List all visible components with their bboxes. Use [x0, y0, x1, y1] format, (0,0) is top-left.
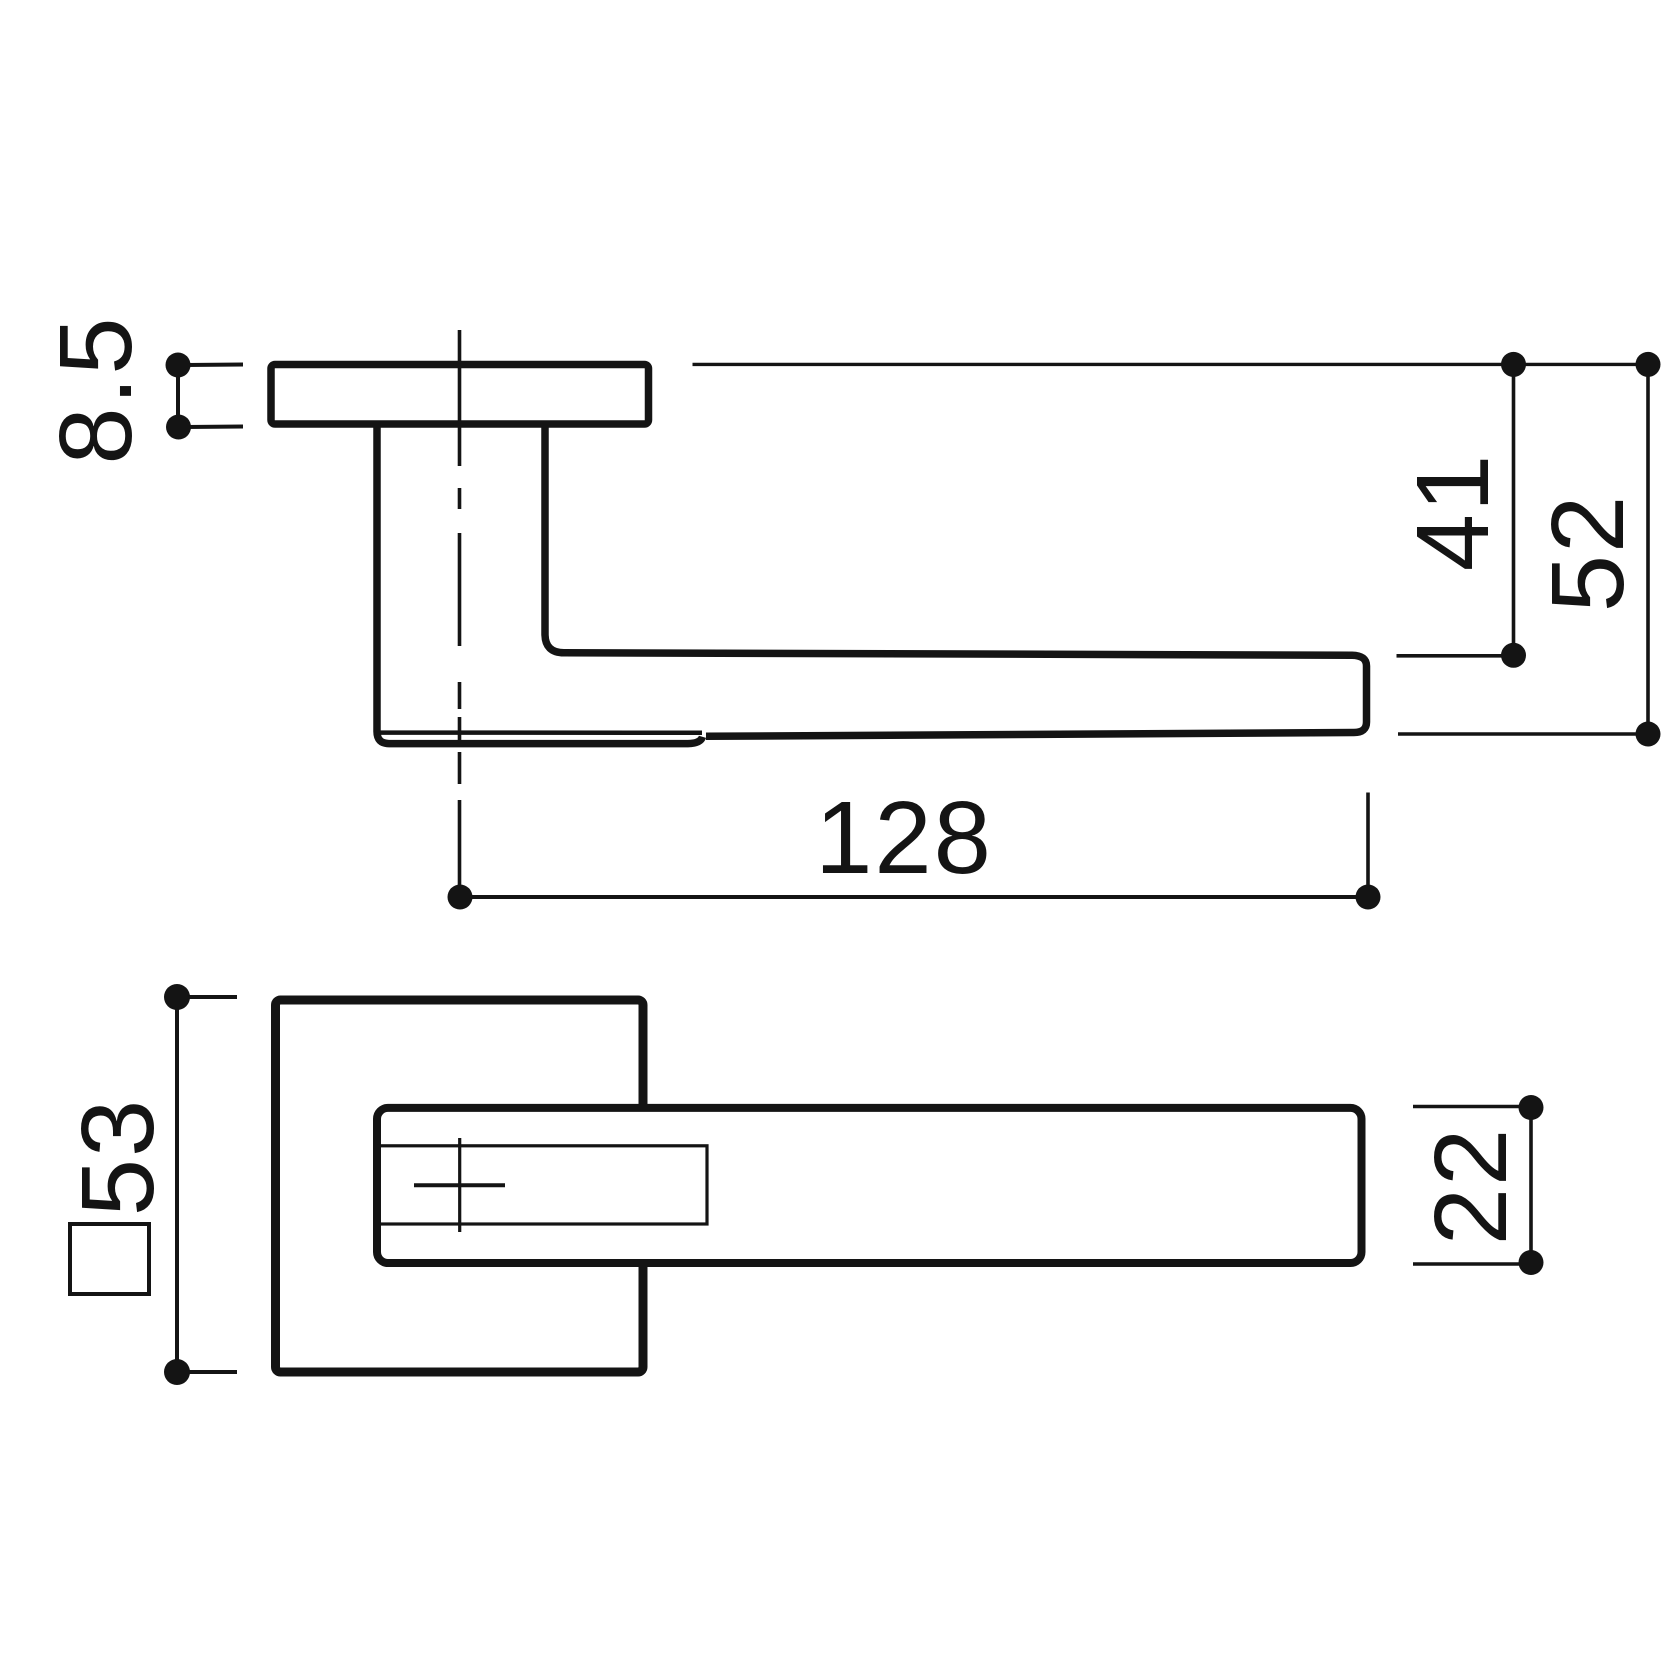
center line (side view, vertical dash-dot) [458, 330, 462, 890]
spindle area rectangle (front view) [379, 1146, 707, 1224]
rose plate (side view) [271, 365, 649, 425]
dimension 8.5: bottom stub line [186, 425, 243, 430]
dimension 128: right dot [1356, 885, 1381, 910]
dimension 41: top dot [1501, 352, 1526, 377]
dimension 53: bottom stub line [186, 1370, 237, 1374]
dimension 8.5: dimension line [176, 365, 180, 427]
dimension 22: dimension line [1529, 1108, 1533, 1263]
svg-text:22: 22 [1413, 1127, 1528, 1246]
lever neck right edge and arm outline (side view) [545, 427, 1367, 736]
dimension 52: bottom dot [1636, 722, 1661, 747]
top extension line from rose plate to right dimensions [693, 363, 1649, 366]
dimension 53: top dot [164, 984, 190, 1010]
grip bottom inner line (side view) [380, 730, 702, 735]
dimension 8.5: bottom dot [166, 415, 191, 440]
svg-text:128: 128 [815, 780, 993, 895]
lever grip rear bottom contour (side view) [377, 427, 703, 744]
svg-text:8.5: 8.5 [38, 315, 153, 464]
dimension 52: dimension line [1646, 364, 1650, 734]
dimension 53: top stub line [186, 995, 237, 999]
svg-text:52: 52 [1530, 494, 1645, 613]
svg-text:53: 53 [60, 1098, 175, 1217]
dimension 128: left dot [448, 885, 473, 910]
square rose plate (front view) [276, 1000, 644, 1372]
dimension 41: extension line from lever top edge [1397, 654, 1514, 658]
dimension 52: top dot [1636, 352, 1661, 377]
dimension 8.5: top dot [166, 353, 191, 378]
dimension 8.5: top stub line [186, 363, 243, 368]
dimension 22: bottom dot [1519, 1250, 1544, 1275]
dimension 22: top dot [1519, 1095, 1544, 1120]
dimension 52: extension line from lever bottom edge [1398, 732, 1648, 736]
dimension 128: dimension line [460, 895, 1368, 899]
dimension 53: dimension line [175, 997, 179, 1372]
dimension 22: top extension line [1413, 1105, 1531, 1109]
dimension 41: bottom dot [1501, 643, 1526, 668]
dimension 128: right extension line [1366, 793, 1370, 891]
center cross horizontal (front view) [414, 1183, 505, 1187]
lever (front view) [377, 1108, 1362, 1263]
dimension 53: bottom dot [164, 1359, 190, 1385]
dimension 53: square symbol [70, 1224, 149, 1294]
center cross vertical (front view) [458, 1138, 461, 1232]
dimension 22: bottom extension line [1413, 1262, 1531, 1266]
svg-text:41: 41 [1395, 453, 1510, 572]
dimension 41: dimension line [1512, 364, 1516, 655]
